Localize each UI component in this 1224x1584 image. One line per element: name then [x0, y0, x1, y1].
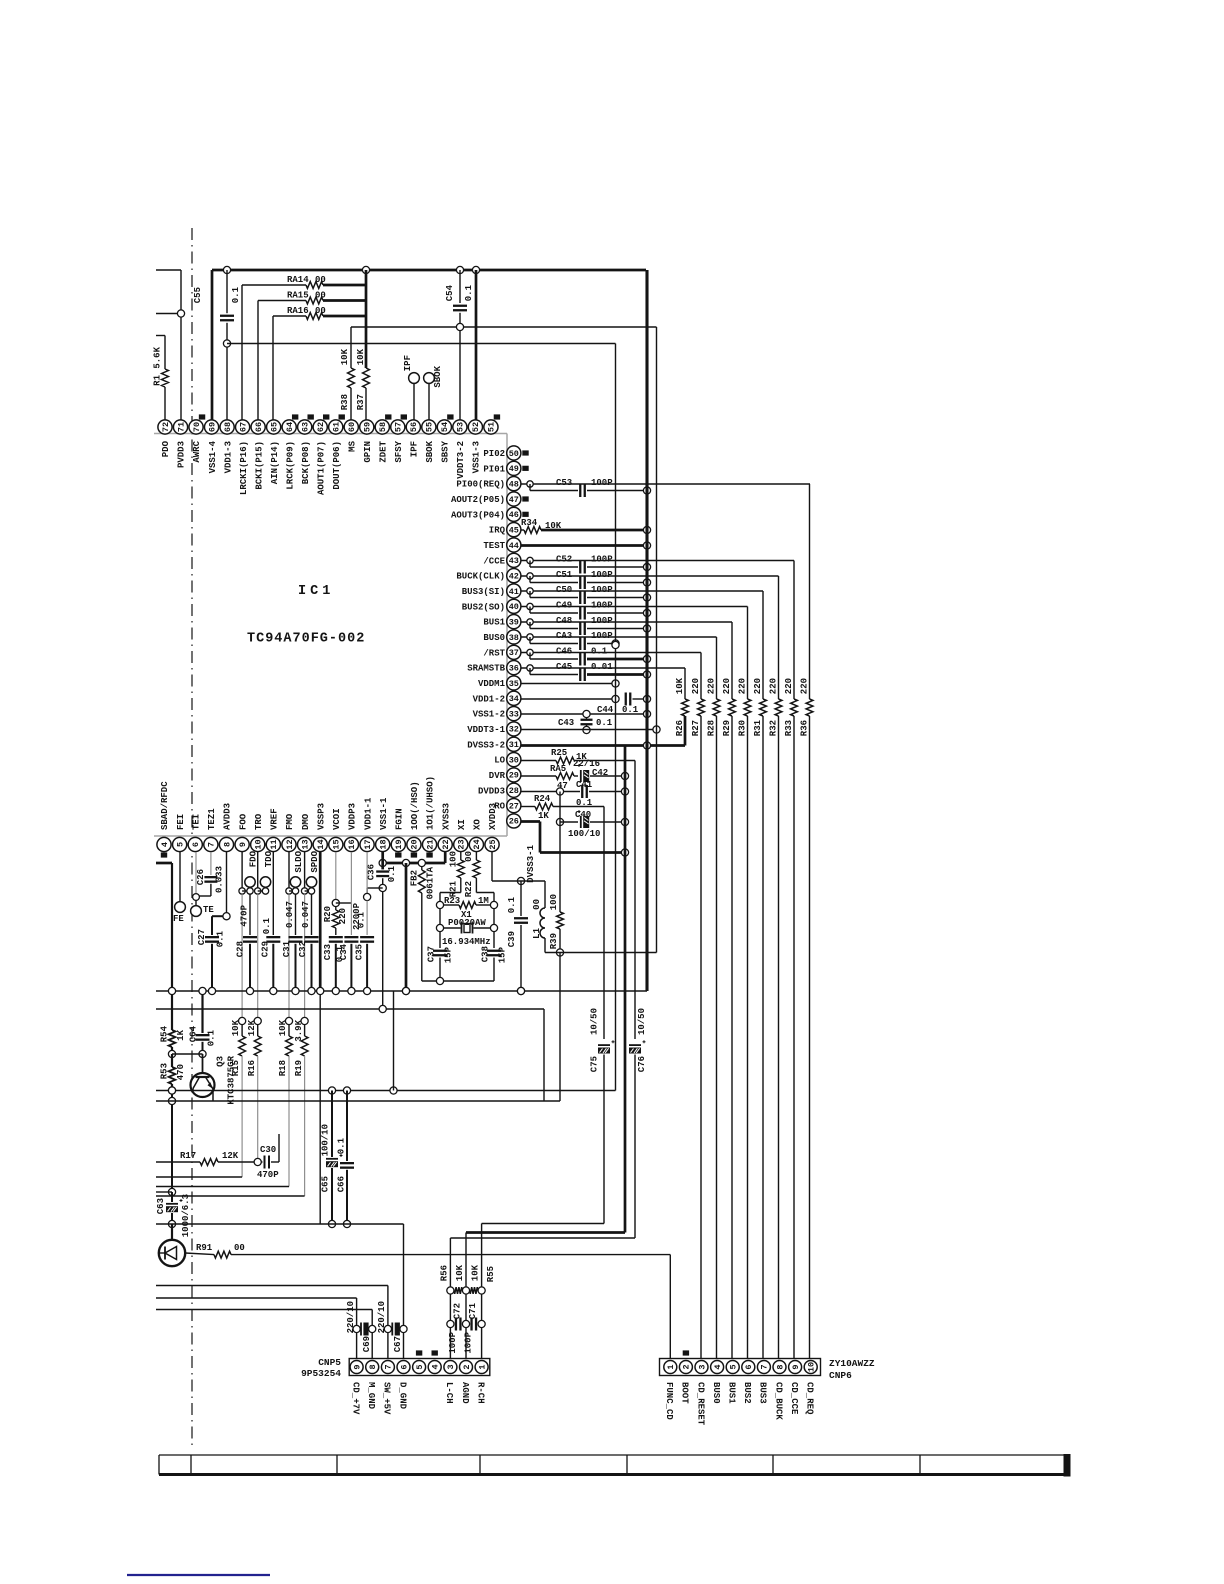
- wire R-CH net riser x=604 with capacitor C75 10/50: [482, 807, 615, 1361]
- pin 55 (SBOK) top row: [422, 420, 436, 463]
- pin CNP6-8 CD_BUCK: [773, 1361, 786, 1421]
- svg-text:0.1: 0.1: [387, 865, 397, 882]
- svg-text:R18: R18: [278, 1060, 288, 1076]
- svg-text:0.1: 0.1: [262, 917, 272, 934]
- svg-text:10: 10: [807, 1362, 817, 1372]
- svg-text:CA3: CA3: [556, 631, 572, 641]
- svg-text:SFSY: SFSY: [394, 440, 404, 462]
- svg-text:7: 7: [207, 842, 217, 847]
- svg-text:8: 8: [775, 1364, 785, 1369]
- pin 42 (BUCK(CLK)) right row: [456, 569, 521, 583]
- svg-text:C50: C50: [556, 585, 572, 595]
- svg-text:11: 11: [269, 839, 279, 849]
- wire R15 return y=1177: [156, 1176, 242, 1178]
- svg-text:DMO: DMO: [301, 813, 311, 830]
- svg-text:9: 9: [238, 842, 248, 847]
- svg-text:26: 26: [509, 817, 519, 827]
- wire DVSS3-2 row (thick ground): [521, 742, 685, 749]
- svg-text:C33: C33: [323, 944, 333, 960]
- svg-text:R16: R16: [247, 1060, 257, 1076]
- svg-text:R31: R31: [753, 719, 763, 736]
- svg-text:AWRC: AWRC: [192, 440, 202, 462]
- svg-text:BUCK(CLK): BUCK(CLK): [456, 572, 505, 582]
- svg-text:BUS2: BUS2: [742, 1382, 752, 1404]
- svg-text:CD_BUCK: CD_BUCK: [773, 1382, 783, 1420]
- svg-text:42: 42: [509, 571, 519, 581]
- svg-text:TC94A70FG-002: TC94A70FG-002: [247, 632, 365, 647]
- test point SBOK: [424, 365, 444, 420]
- svg-text:RA5: RA5: [550, 764, 566, 774]
- wire C36 jog to VDD1-1 column: [367, 888, 383, 893]
- capacitor C54 0.1: [445, 270, 474, 420]
- test point IPF: [403, 355, 419, 420]
- pin 50 (PI02) right row: [483, 446, 528, 460]
- svg-text:SBSY: SBSY: [441, 440, 451, 462]
- svg-text:2: 2: [462, 1364, 472, 1369]
- svg-text:71: 71: [176, 422, 186, 432]
- svg-text:54: 54: [440, 422, 450, 432]
- svg-text:L1: L1: [532, 927, 542, 938]
- svg-text:33: 33: [509, 709, 519, 719]
- svg-text:R24: R24: [534, 794, 551, 804]
- resistor R29 220: [722, 622, 735, 1360]
- pin 25 (XVDD3) bottom row: [485, 803, 499, 852]
- pin CNP6-3 CD_RESET: [695, 1361, 708, 1426]
- wire bus D y=1101: [156, 1100, 560, 1102]
- svg-text:64: 64: [285, 422, 295, 432]
- capacitor C55 0.1: [193, 270, 241, 420]
- pin CNP5-9 CD_+7V: [350, 1361, 363, 1416]
- svg-text:00: 00: [234, 1243, 245, 1253]
- svg-text:10K: 10K: [231, 1019, 241, 1036]
- svg-text:C34: C34: [339, 943, 349, 960]
- pin 39 (BUS1) right row: [483, 615, 521, 629]
- svg-text:17: 17: [363, 839, 373, 849]
- svg-text:TEI: TEI: [191, 814, 201, 830]
- wire /RST row with capacitor C46 0.1: [521, 647, 701, 666]
- svg-text:1O1(/UHSO): 1O1(/UHSO): [426, 776, 436, 830]
- svg-text:44: 44: [509, 541, 519, 551]
- pin 68 (VDD1-3) top row: [220, 420, 234, 474]
- wire XVDD3 pin 25 drop: [492, 852, 545, 881]
- svg-text:AIN(P14): AIN(P14): [270, 441, 280, 484]
- resistor R91 00: [185, 1243, 670, 1258]
- svg-text:C31: C31: [282, 940, 292, 957]
- svg-text:C28: C28: [236, 941, 246, 957]
- wire VDD1 vertical x=615: [612, 344, 619, 1091]
- resistor R17 12K with capacitor C30 470P: [156, 1134, 279, 1180]
- svg-text:46: 46: [509, 510, 519, 520]
- wire VSS1-3 riser (thick): [475, 270, 478, 420]
- pin CNP5-2 AGND: [460, 1361, 473, 1405]
- svg-text:R1: R1: [153, 374, 163, 385]
- pin CNP6-10 CD_REQ: [804, 1361, 817, 1416]
- svg-text:0.1: 0.1: [216, 930, 226, 947]
- svg-text:470P: 470P: [240, 904, 250, 926]
- capacitor C37 15P: [427, 909, 454, 981]
- svg-text:C27: C27: [197, 929, 207, 945]
- svg-text:12: 12: [285, 839, 295, 849]
- svg-text:VDDM1: VDDM1: [478, 679, 506, 689]
- svg-text:DVSS3-1: DVSS3-1: [526, 844, 536, 882]
- capacitor C27 0.1 (AVDD3): [197, 852, 230, 991]
- resistor R16 12K: [247, 1017, 261, 1158]
- pin CNP6-5 BUS1: [726, 1361, 739, 1405]
- svg-text:69: 69: [207, 422, 217, 432]
- svg-text:R20: R20: [323, 906, 333, 922]
- resistor R21 100 (XI): [440, 851, 464, 901]
- svg-text:R29: R29: [722, 720, 732, 736]
- svg-text:BUS1: BUS1: [727, 1382, 737, 1404]
- svg-text:BUS0: BUS0: [483, 633, 505, 643]
- pin CNP5-3 L-CH: [444, 1361, 457, 1404]
- svg-text:TRO: TRO: [254, 813, 264, 830]
- svg-text:VDD1-1: VDD1-1: [363, 797, 373, 830]
- resistor R37 10K: [356, 270, 369, 420]
- svg-text:24: 24: [472, 839, 482, 849]
- svg-text:R19: R19: [294, 1060, 304, 1076]
- svg-text:3: 3: [446, 1364, 456, 1369]
- svg-text:L-CH: L-CH: [444, 1382, 454, 1404]
- capacitor C71 100P: [463, 1302, 485, 1353]
- pin 11 (VREF) bottom row: [266, 808, 280, 851]
- svg-text:TE: TE: [203, 905, 214, 915]
- resistor R39 100: [549, 894, 563, 1101]
- svg-text:VDDT3-2: VDDT3-2: [456, 441, 466, 479]
- svg-text:100P: 100P: [591, 555, 613, 565]
- pin 28 (DVDD3) right row: [478, 783, 521, 797]
- pin 40 (BUS2(SO)) right row: [462, 599, 521, 613]
- svg-text:C39: C39: [507, 931, 517, 947]
- svg-text:C49: C49: [556, 601, 572, 611]
- svg-text:35: 35: [509, 679, 519, 689]
- svg-text:52: 52: [471, 422, 481, 432]
- svg-text:15P: 15P: [444, 946, 454, 963]
- svg-text:37: 37: [509, 648, 519, 658]
- svg-text:XVDD3: XVDD3: [488, 803, 498, 830]
- boundary dash-dot line: [191, 228, 193, 1448]
- svg-text:SRAMSTB: SRAMSTB: [467, 664, 505, 674]
- wire VDD rail y=343: [227, 343, 616, 345]
- svg-text:220: 220: [338, 908, 348, 924]
- pin 36 (SRAMSTB) right row: [467, 661, 521, 675]
- pin CNP5-6 D_GND: [397, 1361, 410, 1410]
- pin 22 (XVSS3) bottom row: [438, 803, 452, 852]
- svg-text:BOOT: BOOT: [680, 1382, 690, 1404]
- svg-text:47: 47: [509, 495, 519, 505]
- svg-text:220/10: 220/10: [346, 1301, 356, 1333]
- svg-text:TEST: TEST: [483, 541, 505, 551]
- connector CNP5 9P53254 body: [301, 1357, 490, 1379]
- svg-text:16: 16: [347, 839, 357, 849]
- resistor R20 220 with capacitor C33 0.1 (VCOI): [323, 852, 351, 991]
- svg-text:ZDET: ZDET: [378, 440, 388, 462]
- pin 64 (LRCK(P09)) top row: [282, 414, 298, 489]
- svg-text:0.047: 0.047: [285, 901, 295, 928]
- pin 24 (XO) bottom row: [469, 819, 483, 852]
- svg-text:C29: C29: [261, 941, 271, 957]
- pin 12 (FMO) bottom row: [282, 813, 296, 851]
- pin 65 (AIN(P14)) top row: [267, 420, 281, 484]
- node C54 top: [456, 266, 463, 273]
- svg-text:IRQ: IRQ: [489, 526, 506, 536]
- svg-text:PDO: PDO: [161, 440, 171, 457]
- pin 41 (BUS3(SI)) right row: [462, 584, 521, 598]
- pin 19 (FGIN) bottom row: [391, 808, 405, 857]
- svg-text:C26: C26: [196, 869, 206, 885]
- svg-text:BCK(P08): BCK(P08): [301, 441, 311, 484]
- resistor R1 5.6K: [153, 336, 169, 421]
- svg-text:DVR: DVR: [489, 771, 506, 781]
- svg-text:220: 220: [707, 678, 717, 694]
- svg-text:220/10: 220/10: [377, 1301, 387, 1333]
- svg-text:PI00(REQ): PI00(REQ): [456, 480, 505, 490]
- svg-text:00: 00: [464, 851, 474, 862]
- pin 20 (1OO(/HSO)) bottom row: [407, 781, 421, 857]
- svg-text:FB2: FB2: [410, 870, 420, 886]
- wire PI00(REQ) row with capacitor C53 100P: [521, 478, 810, 497]
- svg-text:10K: 10K: [675, 677, 685, 694]
- pin 6 (TEI) bottom row: [188, 814, 202, 852]
- pin 32 (VDDT3-1) right row: [467, 722, 521, 736]
- svg-text:C38: C38: [481, 946, 491, 962]
- svg-text:59: 59: [363, 422, 373, 432]
- svg-text:10K: 10K: [455, 1264, 465, 1281]
- svg-text:RA16: RA16: [287, 306, 309, 316]
- svg-text:100P: 100P: [591, 616, 613, 626]
- pin 61 (DOUT(P06)) top row: [329, 414, 345, 489]
- capacitor C26 0.033 (TEZ1): [196, 852, 225, 896]
- svg-text:C30: C30: [260, 1145, 276, 1155]
- svg-text:28: 28: [509, 786, 519, 796]
- pin 71 (PVDD3) top row: [173, 420, 187, 468]
- svg-text:5.6K: 5.6K: [153, 346, 163, 368]
- svg-text:IC1: IC1: [298, 584, 334, 599]
- svg-text:9: 9: [791, 1364, 801, 1369]
- svg-text:100P: 100P: [591, 570, 613, 580]
- pin 23 (XI) bottom row: [454, 819, 468, 851]
- svg-text:R27: R27: [691, 720, 701, 736]
- svg-text:62: 62: [316, 422, 326, 432]
- title block strip: [159, 1454, 1071, 1477]
- transistor Q3 KTC3875GR: [191, 1054, 237, 1105]
- pin 16 (VDDP3) bottom row: [344, 803, 358, 852]
- wire VSS1-4 top bus (thick): [212, 270, 646, 420]
- pin 17 (VDD1-1) bottom row: [360, 797, 374, 852]
- svg-text:R53: R53: [160, 1063, 170, 1079]
- svg-text:AGND: AGND: [460, 1382, 470, 1404]
- svg-text:15: 15: [332, 839, 342, 849]
- wire FOO pin 9 column: [239, 852, 245, 1017]
- svg-text:100P: 100P: [591, 631, 613, 641]
- svg-text:31: 31: [509, 740, 519, 750]
- capacitor C66 0.1: [337, 1091, 354, 1228]
- svg-text:PVDD3: PVDD3: [177, 441, 187, 468]
- svg-text:R54: R54: [160, 1025, 170, 1042]
- svg-text:RA14: RA14: [287, 275, 309, 285]
- svg-text:SBAD/RFDC: SBAD/RFDC: [160, 781, 170, 830]
- wire M_GND feed y=1309: [156, 1310, 372, 1361]
- svg-text:R-CH: R-CH: [475, 1382, 485, 1404]
- resistor R32 220: [769, 576, 782, 1360]
- resistor R18 10K: [278, 1017, 292, 1186]
- pin CNP5-5 NC: [413, 1350, 426, 1373]
- wire VDDT3 vertical x=656: [656, 327, 658, 953]
- svg-text:R91: R91: [196, 1243, 213, 1253]
- pin 51 (corner) top row: [484, 414, 500, 434]
- pin CNP5-8 M_GND: [366, 1361, 379, 1410]
- svg-text:63: 63: [300, 422, 310, 432]
- pin 59 (GPIN) top row: [360, 420, 374, 463]
- svg-text:10K: 10K: [356, 348, 366, 365]
- resistor R27 220: [691, 653, 704, 1361]
- svg-text:57: 57: [394, 422, 404, 432]
- svg-text:C53: C53: [556, 478, 572, 488]
- pin 58 (ZDET) top row: [375, 414, 391, 462]
- wire CD_+7V feed y=1298: [156, 1298, 357, 1360]
- svg-text:0.01: 0.01: [591, 662, 613, 672]
- svg-text:R28: R28: [707, 720, 717, 736]
- test point FDO with capacitor C28 470P: [236, 850, 259, 991]
- svg-text:C42: C42: [592, 768, 608, 778]
- svg-text:100P: 100P: [591, 601, 613, 611]
- svg-text:10: 10: [254, 839, 264, 849]
- resistor RA14 00: [242, 275, 366, 420]
- pin 4 (SBAD/RFDC) bottom row: [157, 781, 171, 858]
- svg-text:FUNC_CD: FUNC_CD: [664, 1382, 674, 1420]
- pin 69 (VSS1-4) top row: [204, 420, 218, 474]
- resistor RA5 47 and capacitor C42 22/16 (DVR row): [521, 759, 629, 791]
- svg-text:45: 45: [509, 525, 519, 535]
- pin CNP5-4 NC: [428, 1350, 441, 1373]
- svg-text:C51: C51: [556, 570, 573, 580]
- svg-text:5: 5: [729, 1364, 739, 1369]
- svg-text:AVDD3: AVDD3: [223, 803, 233, 830]
- svg-text:C40: C40: [575, 810, 591, 820]
- svg-text:R26: R26: [675, 720, 685, 736]
- svg-text:C64: C64: [189, 1025, 199, 1042]
- svg-text:C72: C72: [453, 1303, 463, 1319]
- svg-text:XO: XO: [473, 819, 483, 830]
- svg-text:LRCK(P09): LRCK(P09): [285, 441, 295, 490]
- pin 66 (BCKI(P15)) top row: [251, 420, 265, 490]
- svg-text:6: 6: [191, 842, 201, 847]
- svg-text:VSSP3: VSSP3: [316, 803, 326, 830]
- svg-text:C46: C46: [556, 647, 572, 657]
- svg-text:FE: FE: [173, 914, 184, 924]
- svg-text:CNP6: CNP6: [829, 1370, 852, 1381]
- svg-text:10K: 10K: [470, 1264, 480, 1281]
- inductor L1 00: [532, 881, 545, 953]
- svg-text:PI01: PI01: [483, 464, 505, 474]
- pin 60 (MS) top row: [344, 420, 358, 452]
- svg-text:67: 67: [238, 422, 248, 432]
- svg-text:CD_CCE: CD_CCE: [789, 1382, 799, 1415]
- pin 72 (PDO) top row: [158, 420, 172, 457]
- wire crystal ground rail: [422, 977, 494, 984]
- capacitor C34 2200P (VDDP3): [339, 852, 362, 991]
- svg-text:AOUT1(P07): AOUT1(P07): [316, 441, 326, 495]
- svg-text:0.1: 0.1: [337, 1137, 347, 1154]
- svg-text:C48: C48: [556, 616, 572, 626]
- svg-text:7: 7: [760, 1364, 770, 1369]
- svg-text:AOUT3(P04): AOUT3(P04): [451, 510, 505, 520]
- crystal X1 P0020AW 16.934MHz: [436, 910, 497, 947]
- svg-text:VSS1-2: VSS1-2: [473, 710, 505, 720]
- svg-text:0061TA: 0061TA: [426, 866, 436, 899]
- pin 44 (TEST) right row: [483, 538, 521, 552]
- pin 45 (IRQ) right row: [489, 523, 521, 537]
- svg-text:5: 5: [415, 1364, 425, 1369]
- svg-text:C32: C32: [298, 941, 308, 957]
- svg-text:SBOK: SBOK: [433, 365, 443, 387]
- svg-text:68: 68: [223, 422, 233, 432]
- node VSS1-3 top: [472, 266, 479, 273]
- svg-text:470: 470: [176, 1064, 186, 1080]
- svg-text:C71: C71: [468, 1302, 478, 1319]
- svg-text:LRCKI(P16): LRCKI(P16): [239, 441, 249, 495]
- resistor R38 10K: [340, 327, 354, 420]
- svg-text:BUS3: BUS3: [758, 1382, 768, 1404]
- svg-text:1K: 1K: [538, 811, 549, 821]
- svg-text:DVDD3: DVDD3: [478, 786, 505, 796]
- svg-text:30: 30: [509, 755, 519, 765]
- svg-text:R17: R17: [180, 1151, 196, 1161]
- wire XVSS3 pin 22 drop (thick): [444, 852, 447, 863]
- pin 46 (AOUT3(P04)) right row: [451, 507, 529, 521]
- svg-text:R55: R55: [486, 1266, 496, 1282]
- svg-text:18: 18: [378, 839, 388, 849]
- svg-text:220: 220: [722, 678, 732, 694]
- wire DVSS3-1 (pin 26, thick): [521, 822, 629, 883]
- wire TEST row (thick): [521, 542, 651, 549]
- svg-text:0.1: 0.1: [596, 718, 613, 728]
- svg-text:2: 2: [682, 1364, 692, 1369]
- svg-text:R23: R23: [444, 896, 460, 906]
- svg-text:DOUT(P06): DOUT(P06): [332, 441, 342, 490]
- svg-text:100: 100: [549, 894, 559, 910]
- svg-text:58: 58: [378, 422, 388, 432]
- svg-text:CD_+7V: CD_+7V: [350, 1382, 360, 1415]
- svg-text:VSS1-4: VSS1-4: [208, 440, 218, 473]
- svg-text:0.033: 0.033: [215, 866, 225, 893]
- pin 47 (AOUT2(P05)) right row: [451, 492, 529, 506]
- svg-text:TEZ1: TEZ1: [207, 808, 217, 830]
- pin 48 (PI00(REQ)) right row: [456, 477, 521, 491]
- pin 9 (FOO) bottom row: [235, 813, 249, 851]
- svg-text:34: 34: [509, 694, 519, 704]
- svg-text:55: 55: [425, 422, 435, 432]
- svg-text:R39: R39: [549, 933, 559, 949]
- svg-text:220: 220: [753, 678, 763, 694]
- svg-text:5: 5: [175, 842, 185, 847]
- svg-text:C66: C66: [337, 1176, 347, 1192]
- node C55 top: [223, 266, 230, 273]
- resistor R24 1K (RO row): [521, 794, 604, 821]
- svg-text:/RST: /RST: [483, 648, 505, 658]
- svg-text:SLDO: SLDO: [294, 850, 304, 872]
- wire BUS2(SO) row with capacitor C49 100P: [521, 601, 748, 620]
- svg-text:00: 00: [315, 306, 326, 316]
- resistor R25 1K (LO row): [521, 748, 635, 764]
- svg-text:AOUT2(P05): AOUT2(P05): [451, 495, 505, 505]
- svg-text:C41: C41: [576, 780, 593, 790]
- svg-text:220: 220: [738, 678, 748, 694]
- wire bus C y=1090: [156, 1087, 616, 1094]
- pin CNP6-6 BUS2: [742, 1361, 755, 1404]
- pin 53 (VDDT3-2) top row: [453, 420, 467, 479]
- pin CNP6-4 BUS0: [711, 1361, 724, 1404]
